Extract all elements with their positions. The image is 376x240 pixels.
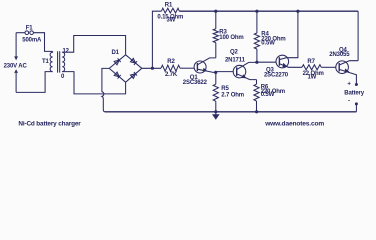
- wire: fuse to transformer primary top: [33, 33, 52, 52]
- fuse F1: [25, 31, 29, 35]
- wire: secondary 12 tap to bridge top: [62, 36, 125, 55]
- svg-text:R7: R7: [307, 59, 315, 65]
- AC source arrow lower (points up): [14, 69, 18, 73]
- junction dot rail/R4: [255, 10, 258, 13]
- transformer T1 primary winding: [50, 51, 52, 71]
- svg-text:F1: F1: [26, 25, 34, 31]
- junction dot R6/rail: [255, 110, 258, 113]
- Q1 collector: [197, 58, 215, 65]
- Q3 collector: [279, 11, 298, 59]
- wire: rail down to R4: [256, 11, 258, 33]
- wire: R3 bottom to Q1 collector corner: [215, 43, 217, 58]
- resistor R1: [161, 8, 179, 13]
- junction dot rail/Q3 collector: [296, 10, 299, 13]
- resistor R3: [213, 29, 218, 43]
- svg-text:500mA: 500mA: [22, 37, 42, 43]
- Q3 emitter with arrow: [279, 64, 302, 68]
- wire: AC source upper lead: [15, 33, 17, 57]
- svg-text:Battery: Battery: [344, 90, 364, 96]
- svg-text:2SC2270: 2SC2270: [264, 73, 289, 79]
- svg-text:2.7 Ohm: 2.7 Ohm: [221, 93, 244, 99]
- wire: node A down to R5: [215, 72, 217, 84]
- wire: node A to Q2 base: [216, 71, 234, 73]
- junction dot rail/R3: [214, 10, 217, 13]
- wire: top positive rail: [179, 10, 358, 12]
- svg-text:R2: R2: [167, 59, 175, 65]
- resistor R2: [161, 65, 180, 71]
- wire: primary bottom return: [16, 72, 53, 93]
- resistor R7: [302, 65, 321, 70]
- wire: top rail down to Q4 collector: [357, 11, 359, 61]
- Q1 emitter with arrow: [197, 69, 215, 72]
- wire: junction up to R1 left: [152, 11, 161, 68]
- Q4 emitter with arrow: [339, 69, 356, 84]
- resistor R6: [254, 84, 259, 101]
- svg-text:2N3055: 2N3055: [329, 52, 350, 58]
- bridge edge bottom-right with diode: [126, 68, 142, 82]
- wire: bridge negative output to ground rail (with hop over 0-tap wire): [102, 68, 109, 111]
- wire: AC source lower lead: [15, 73, 17, 93]
- resistor R4: [254, 33, 259, 49]
- junction dot bridge+/R1: [151, 67, 154, 70]
- label battery plus: [355, 83, 358, 86]
- svg-text:www.daenotes.com: www.daenotes.com: [264, 120, 324, 127]
- bridge edge top-right with diode: [126, 55, 142, 69]
- AC source arrow upper (points down): [14, 56, 18, 60]
- svg-text:2SC3622: 2SC3622: [183, 80, 208, 86]
- wire: R6 to ground rail: [256, 101, 258, 112]
- wire: battery negative stub to ground rail: [355, 104, 357, 112]
- svg-text:R1: R1: [165, 2, 173, 8]
- svg-text:2.7K: 2.7K: [165, 72, 178, 78]
- wire: R7 to Q4 base: [321, 66, 336, 68]
- svg-text:2N1711: 2N1711: [225, 58, 246, 64]
- svg-text:-: -: [348, 98, 350, 104]
- svg-text:0.5W: 0.5W: [261, 41, 275, 47]
- transformer secondary winding: [62, 52, 64, 71]
- transistor Q4: [336, 61, 349, 74]
- Q2 collector: [237, 62, 257, 69]
- transistor Q2: [233, 65, 246, 78]
- node A junction dot (Q1 emitter / Q2 base / R5): [214, 71, 217, 74]
- transformer core: [58, 51, 60, 72]
- ground arrow below rail: [215, 112, 217, 115]
- junction dot R4/Q2 collector/Q3 base: [255, 61, 258, 64]
- wire: R5 to ground rail: [215, 101, 217, 112]
- wire: rail down to R3: [215, 11, 217, 29]
- svg-text:Q2: Q2: [230, 49, 239, 55]
- wire: Q2 emitter to R6: [256, 80, 258, 85]
- bridge edge bottom-left with diode: [109, 68, 125, 82]
- ground rail (bottom): [105, 111, 357, 113]
- svg-text:1W: 1W: [308, 75, 317, 81]
- wire: mains live from source to fuse: [16, 32, 25, 34]
- Q2 emitter with arrow: [237, 74, 257, 80]
- svg-text:Ni-Cd battery charger: Ni-Cd battery charger: [18, 120, 81, 127]
- wire: R4 bottom to junction: [256, 49, 258, 62]
- svg-text:0.5W: 0.5W: [261, 92, 275, 98]
- svg-text:3W: 3W: [167, 18, 176, 24]
- svg-text:100 Ohm: 100 Ohm: [219, 35, 243, 41]
- transistor Q3: [276, 55, 289, 68]
- bridge edge top-left with diode: [109, 55, 125, 69]
- svg-text:T1: T1: [42, 59, 50, 65]
- wire: junction to Q3 base: [257, 61, 276, 63]
- label battery minus: [355, 102, 358, 105]
- wire: secondary 0 tap to bridge bottom: [62, 72, 125, 94]
- wire: bridge positive output: [142, 67, 161, 69]
- svg-text:12: 12: [63, 48, 70, 54]
- svg-text:D1: D1: [112, 50, 120, 56]
- wire: R2 to Q1 base: [180, 67, 194, 69]
- junction dot R5/rail: [214, 110, 217, 113]
- resistor R5: [213, 84, 218, 101]
- transistor Q1: [194, 61, 206, 73]
- Q4 collector: [339, 61, 358, 65]
- svg-text:R5: R5: [221, 86, 229, 92]
- svg-text:230V AC: 230V AC: [4, 64, 28, 70]
